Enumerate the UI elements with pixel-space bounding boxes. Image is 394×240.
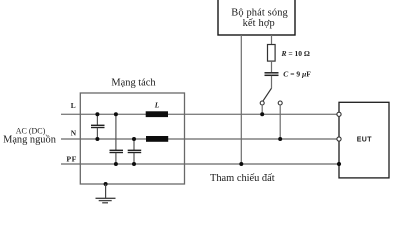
capacitor C2 (L to PF) bbox=[115, 114, 117, 150]
wire R to C bbox=[271, 61, 273, 72]
terminal N on EUT bbox=[337, 137, 341, 141]
junction C1 bottom bbox=[95, 137, 99, 141]
ground bbox=[105, 184, 107, 198]
svg-text:Tham chiếu đất: Tham chiếu đất bbox=[210, 173, 275, 184]
svg-text:Bộ phát sóng: Bộ phát sóng bbox=[231, 8, 288, 19]
junction C2 top bbox=[114, 112, 118, 116]
wire pole to N bbox=[279, 105, 281, 139]
resistor R bbox=[268, 45, 276, 62]
capacitor C1 (L to N) bbox=[96, 114, 98, 125]
junction C1 top bbox=[95, 112, 99, 116]
svg-text:C = 9 µF: C = 9 µF bbox=[283, 70, 311, 79]
svg-text:R = 10 Ω: R = 10 Ω bbox=[281, 49, 310, 58]
wire C to switch bbox=[271, 76, 273, 88]
junction on N bbox=[278, 137, 282, 141]
capacitor C3 (N to PF) bbox=[133, 139, 135, 150]
svg-text:PF: PF bbox=[66, 155, 77, 164]
junction C3 bottom bbox=[132, 162, 136, 166]
junction C3 top bbox=[132, 137, 136, 141]
svg-text:N: N bbox=[71, 129, 77, 138]
wire N line bbox=[61, 138, 339, 140]
box Mạng tách bbox=[80, 93, 184, 184]
svg-text:Mạng nguồn: Mạng nguồn bbox=[3, 135, 57, 146]
svg-text:L: L bbox=[154, 100, 160, 109]
terminal L on EUT bbox=[337, 112, 341, 116]
wire pole to L bbox=[261, 105, 263, 114]
junction C2 bottom bbox=[114, 162, 118, 166]
inductor L1 on L line bbox=[146, 111, 168, 117]
svg-text:kết hợp: kết hợp bbox=[243, 18, 275, 29]
box EUT bbox=[339, 102, 389, 178]
junction ground tap bbox=[104, 182, 108, 186]
wire PF line bbox=[61, 163, 339, 165]
junction on L bbox=[260, 112, 264, 116]
capacitor C bbox=[265, 72, 279, 74]
wire from U1 to PF reference bbox=[240, 35, 242, 164]
wire L line bbox=[61, 113, 339, 115]
switch pole left bbox=[260, 101, 264, 105]
terminal PF on EUT bbox=[337, 162, 341, 166]
svg-text:L: L bbox=[71, 101, 76, 110]
box U1 Bộ phát sóng kết hợp bbox=[218, 0, 295, 35]
svg-text:EUT: EUT bbox=[357, 137, 373, 144]
svg-text:Mạng tách: Mạng tách bbox=[111, 77, 156, 88]
inductor L2 on N line bbox=[146, 136, 168, 142]
switch pole right bbox=[278, 101, 282, 105]
switch S1 blade bbox=[263, 88, 272, 101]
wire U1 to R bbox=[271, 35, 273, 45]
junction on PF bbox=[239, 162, 243, 166]
